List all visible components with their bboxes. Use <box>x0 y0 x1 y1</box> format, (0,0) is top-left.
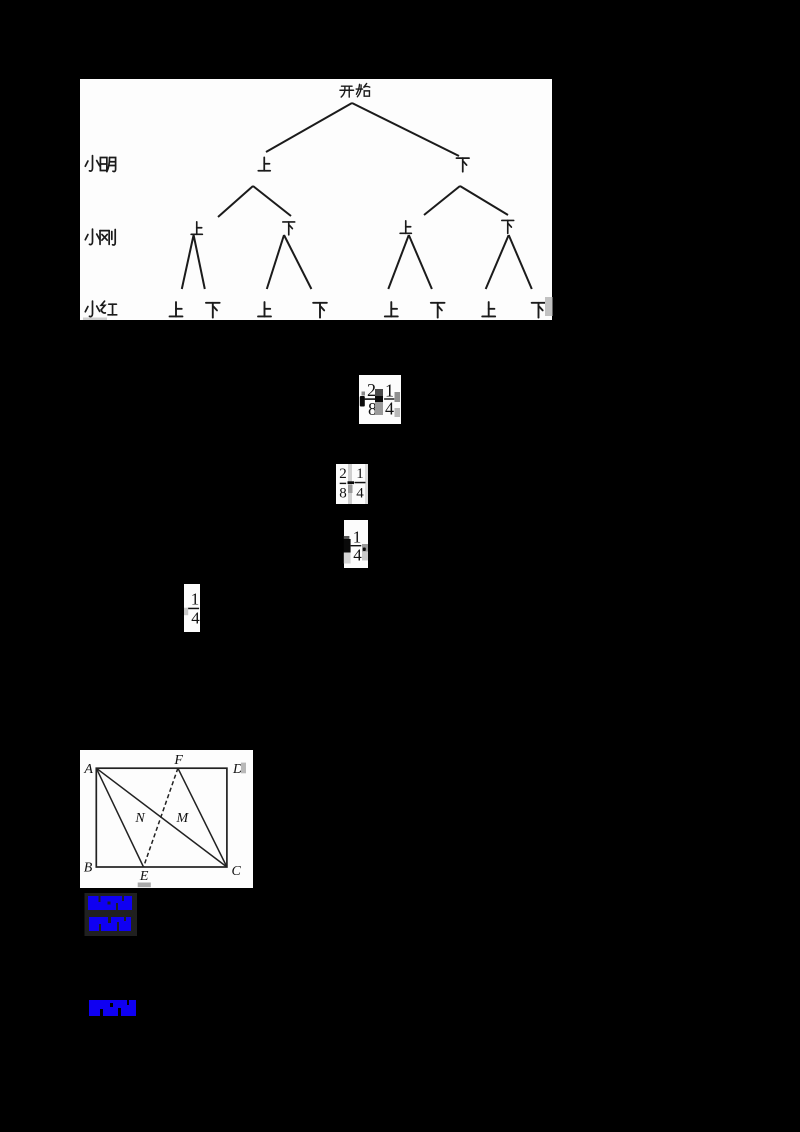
svg-text:C: C <box>232 864 242 879</box>
svg-text:1: 1 <box>191 590 200 609</box>
fraction panel 4 content 1/4 <box>184 590 200 628</box>
blue caption line 3 <box>89 1000 136 1016</box>
svg-text:M: M <box>175 811 189 826</box>
level-3 fork 2 <box>267 235 312 289</box>
svg-text:N: N <box>134 811 145 826</box>
svg-text:A: A <box>83 762 93 777</box>
row label 小刚 <box>85 229 115 245</box>
level-2 node 上 (mid right) <box>400 221 411 234</box>
dashed segment FE <box>144 768 178 867</box>
dark grey backing behind blue captions <box>85 893 138 936</box>
segment FC <box>178 768 227 867</box>
level-3 fork 3 <box>388 235 432 289</box>
diagonal AC <box>96 768 227 867</box>
label 开始 (start) <box>340 83 370 97</box>
fraction panel 2 content 2/8 = 1/4 <box>339 466 365 502</box>
svg-text:E: E <box>139 869 149 884</box>
level-2 node 下 (mid left) <box>283 222 295 235</box>
blue caption line 2 <box>89 917 131 931</box>
vertex labels <box>83 753 243 884</box>
fraction panel 1 white box <box>359 375 401 424</box>
level-1 node 下 <box>456 158 469 172</box>
level-3 fork 4 <box>486 235 532 289</box>
svg-text:4: 4 <box>356 486 364 502</box>
svg-text:1: 1 <box>353 528 362 547</box>
svg-text:B: B <box>84 861 93 876</box>
level-3 fork 1 <box>182 235 205 289</box>
fraction panel 3 artifacts <box>344 544 368 564</box>
tree level-1 branch right <box>352 103 459 156</box>
tree diagram white panel <box>80 79 552 320</box>
fraction panel 2 white box <box>336 464 368 504</box>
svg-text:1: 1 <box>356 466 364 482</box>
row label 小红 <box>85 301 116 316</box>
svg-text:2: 2 <box>367 380 376 400</box>
grey artifact strip under 小红 <box>83 318 107 321</box>
level-2 branches under right 下 <box>424 186 508 215</box>
svg-text:1: 1 <box>385 381 394 401</box>
tree level-1 branch left <box>266 103 352 152</box>
leaf labels row 上/下 x4 <box>170 302 546 318</box>
svg-text:4: 4 <box>191 609 200 628</box>
fraction panel 4 white box <box>184 584 200 632</box>
svg-text:2: 2 <box>339 466 347 482</box>
level-2 branches under left 上 <box>218 186 291 217</box>
level-2 node 下 (far right) <box>502 220 514 233</box>
segment AE <box>96 768 143 867</box>
level-1 node 上 <box>258 157 270 170</box>
grey artifact block right of last 下 <box>545 297 553 316</box>
fraction panel 2 artifacts grey strip <box>348 464 368 504</box>
rectangle ABCD <box>96 768 227 867</box>
svg-text:F: F <box>173 753 183 768</box>
fraction panel 1 content 2/8 = 1/4 <box>365 380 395 419</box>
blue caption line 1 <box>88 896 132 910</box>
geometry panel artifacts <box>138 763 246 888</box>
svg-text:8: 8 <box>339 486 347 502</box>
fraction panel 1 artifacts: equals blob, edge marks <box>360 389 400 417</box>
fraction panel 3 white box <box>344 520 368 568</box>
svg-text:4: 4 <box>353 546 362 565</box>
svg-text:4: 4 <box>385 399 394 419</box>
fraction panel 3 content = 1/4 <box>344 528 362 565</box>
level-2 node 上 (far left) <box>191 222 202 235</box>
row label 小明 <box>85 156 115 172</box>
geometry figure white panel <box>80 750 253 888</box>
